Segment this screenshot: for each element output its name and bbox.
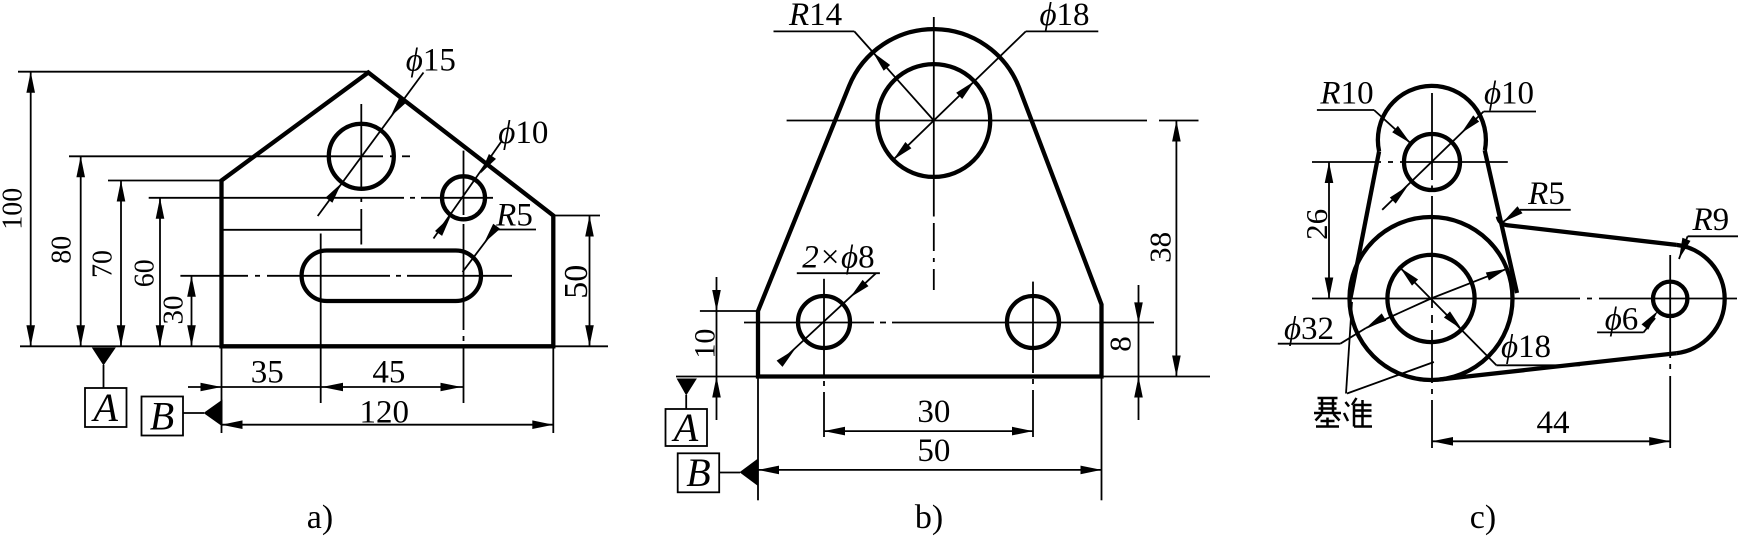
svg-text:60: 60 [130,259,161,287]
svg-text:R5: R5 [1527,176,1565,212]
centerline phi15 horizontal / ext 80 [69,155,410,157]
label b) [915,499,943,536]
hole phi8 left [798,296,850,348]
svg-text:R9: R9 [1691,202,1729,238]
svg-text:ϕ15: ϕ15 [406,43,456,79]
leader phi18 part b [893,0,1098,160]
dimension 10 [689,277,722,420]
part a datum base line [20,345,608,347]
centerline phi10 part c horizontal [1312,161,1508,163]
leader R5 part c [1503,176,1571,222]
svg-text:100: 100 [0,188,29,230]
svg-text:ϕ18: ϕ18 [1039,0,1089,33]
centerline phi10 horizontal / ext 60 [149,197,493,199]
dimension 50 part a [558,216,595,347]
leader R10 [1317,76,1411,144]
datum B part a [142,394,223,439]
svg-text:80: 80 [47,236,78,264]
part b datum base line [676,376,1210,378]
leader phi10 part c [1382,75,1536,210]
svg-text:A: A [671,405,699,450]
dimension 100 [0,72,35,347]
datum B part b [678,450,758,495]
svg-text:50: 50 [558,265,595,299]
part b plate outline [758,29,1102,376]
dimension 44 [1432,405,1670,446]
centerline small holes horizontal [744,322,1154,324]
dimension 8 [1103,285,1143,420]
hole phi15 part a [329,124,394,189]
svg-text:44: 44 [1537,405,1570,441]
svg-text:A: A [90,385,118,430]
extension line left edge part b [757,377,759,501]
hole phi8 right [1007,296,1059,348]
label jizhun datum text [1314,302,1434,427]
svg-text:50: 50 [917,433,950,469]
svg-text:120: 120 [360,394,410,430]
hole phi10 part a [442,176,485,219]
centerline part c vertical [1431,93,1433,448]
leader phi32 [1278,269,1507,347]
svg-text:10: 10 [689,329,722,359]
svg-text:30: 30 [158,296,190,325]
leader phi6 [1597,302,1658,338]
dimension 70 [88,181,126,347]
part c top lobe arc R10 [1378,86,1486,151]
extension line 70 [108,180,222,182]
svg-text:2×ϕ8: 2×ϕ8 [802,240,874,276]
dimension 30 part b [824,394,1033,435]
centerline phi18 vertical [933,17,935,290]
svg-text:ϕ32: ϕ32 [1284,311,1334,347]
part c left tangent line [1351,151,1380,298]
centerline slot horizontal / ext 30 [180,275,512,277]
centerline phi8 left vertical [823,279,825,437]
leader R14 [774,0,934,121]
leader R9 [1679,202,1738,259]
svg-text:ϕ6: ϕ6 [1605,302,1639,338]
dimension 35 [188,354,321,391]
svg-text:45: 45 [372,354,405,390]
leader R5 part a [463,198,537,273]
svg-text:70: 70 [88,250,119,278]
part a plate outline [222,73,554,347]
svg-text:B: B [686,450,710,495]
dimension 120 [222,394,554,430]
svg-text:30: 30 [917,394,950,430]
dimension 60 [130,198,165,346]
dimension 45 [321,354,463,391]
centerline phi10 vertical [463,151,465,403]
svg-text:ϕ18: ϕ18 [1501,329,1551,365]
svg-text:B: B [150,394,174,439]
svg-text:35: 35 [251,354,284,390]
dimension 80 [47,156,86,346]
slot R5 part a [302,251,481,302]
label a) [307,499,333,536]
centerline phi6 vertical [1669,255,1671,448]
svg-text:R10: R10 [1319,76,1373,112]
svg-text:ϕ10: ϕ10 [1484,75,1534,111]
centerline phi8 right vertical [1032,282,1034,437]
extension line 10 part b [700,310,758,312]
part c right tangent line [1485,150,1517,293]
part c hole phi18 [1387,255,1474,342]
dimension 30 [158,276,196,347]
part c arm top line [1498,217,1677,245]
extension line 50 right [553,215,600,217]
svg-text:26: 26 [1299,209,1334,240]
svg-text:R5: R5 [495,198,533,234]
part c big boss outer circle phi32 [1350,217,1513,380]
part c R9 arc [1676,245,1724,353]
centerline phi15 vertical [360,104,362,245]
centerline phi18 horizontal / ext 38 [787,120,1199,122]
part c hole phi6 [1653,282,1687,316]
extension line top 100 [18,71,368,73]
datum A part b [666,379,708,451]
reference line left edge to phi15 centerline [222,229,362,231]
dimension 26 [1299,162,1334,299]
hole phi18 part b [877,64,990,177]
svg-text:a): a) [307,499,333,536]
part c arm bottom line [1440,353,1676,379]
leader phi10 [434,115,549,239]
part c hole phi10 [1404,134,1460,190]
label c) [1470,499,1496,536]
centerline part c horizontal [1312,298,1737,300]
dimension 50 part b [758,433,1102,474]
extension line right edge bottom [552,346,554,433]
leader phi15 [318,43,456,217]
extension line slot left center [320,234,322,404]
svg-text:R14: R14 [788,0,842,33]
svg-text:c): c) [1470,499,1496,536]
extension line left edge bottom [221,346,223,433]
svg-text:b): b) [915,499,943,536]
leader phi18 part c [1400,268,1580,366]
extension line right edge part b [1101,377,1103,501]
leader 2xphi8 [777,240,880,367]
dimension 38 [1143,121,1181,377]
svg-text:8: 8 [1103,336,1138,352]
svg-text:38: 38 [1143,232,1178,263]
datum A part a [85,348,127,431]
svg-text:ϕ10: ϕ10 [498,115,548,151]
